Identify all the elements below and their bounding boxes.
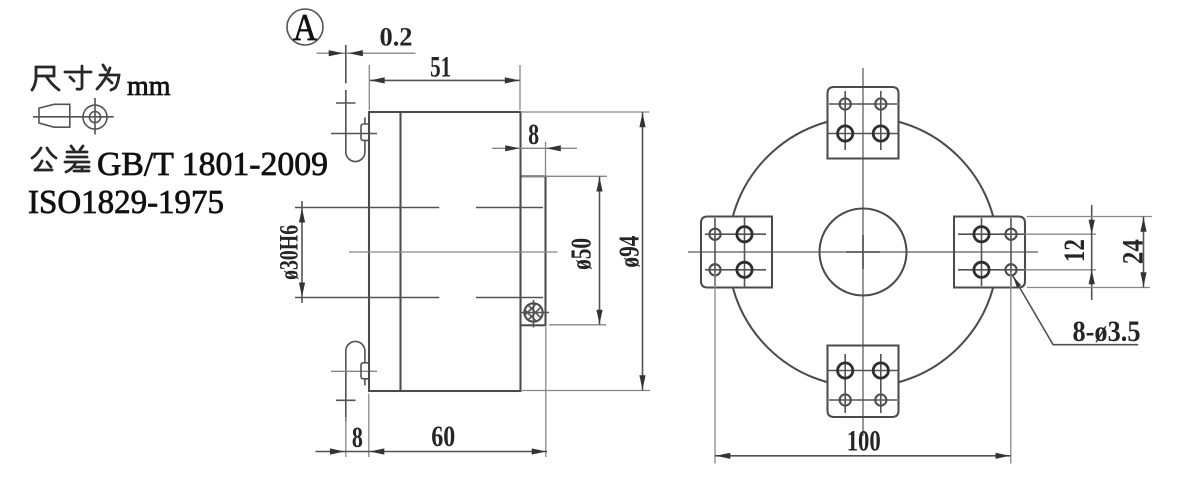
right view: right tab small holes (ø3.5) <box>1005 229 1016 276</box>
right view: body circle arc top-left <box>733 122 828 217</box>
svg-text:8: 8 <box>528 118 539 151</box>
left view: top stud center line <box>331 133 377 135</box>
svg-text:mm: mm <box>127 71 171 102</box>
right view: right tab hole axis lines <box>958 218 1096 286</box>
left view: bottom hook axis line <box>345 358 347 422</box>
right view: bottom tab big holes <box>838 363 889 378</box>
note: dimensions in mm (Chinese 尺寸为 + mm) <box>32 65 171 102</box>
datum label A circle <box>287 7 323 49</box>
dimension ø50 lines <box>522 176 607 324</box>
right view: body circle arc bottom-left <box>733 288 828 383</box>
dimension 8 (plate) line <box>492 142 577 175</box>
right view: left tab hole axis lines <box>705 217 766 288</box>
projection symbol cone (frustum side view) <box>39 104 70 127</box>
right view: body circle arc bottom-right <box>899 288 994 383</box>
projection symbol center line <box>33 116 114 118</box>
svg-text:A: A <box>293 7 317 49</box>
left view: flange line <box>399 112 401 391</box>
dimension 100 lines <box>715 272 1011 464</box>
svg-text:12: 12 <box>1058 239 1091 262</box>
right view: right mounting tab outline <box>954 217 1025 288</box>
right view: bottom mounting tab outline <box>828 346 899 418</box>
right view: left tab small holes (ø3.5) <box>709 229 720 276</box>
right view: center mark cross <box>846 235 880 269</box>
dimension ø94 lines <box>521 112 651 391</box>
dimension 12 line <box>1089 205 1095 300</box>
right view: top tab big holes <box>838 126 889 141</box>
dimension ø30H6 line <box>299 201 305 303</box>
dimension 51 line <box>369 65 520 110</box>
svg-text:8-ø3.5: 8-ø3.5 <box>1073 315 1141 348</box>
left view: bore line top <box>295 207 543 209</box>
left view: motor body rectangle <box>369 112 521 391</box>
svg-text:ø30H6: ø30H6 <box>275 225 304 280</box>
right view: top tab small holes (ø3.5) <box>840 98 887 109</box>
note: tolerance 公差 GB/T 1801-2009 <box>32 146 328 183</box>
left view: top stud <box>361 124 368 140</box>
svg-text:GB/T 1801-2009: GB/T 1801-2009 <box>97 146 328 183</box>
left view: mounting plate (8mm) rectangle <box>521 176 546 325</box>
right view: left tab big holes <box>737 227 752 278</box>
left view: top hook axis line <box>345 45 347 147</box>
svg-text:ø50: ø50 <box>566 238 598 270</box>
svg-text:60: 60 <box>431 420 455 453</box>
right view: vertical center line <box>862 68 864 436</box>
left view: bottom hook U-curve <box>346 341 365 385</box>
left view: axis center line <box>349 251 558 253</box>
right view: left mounting tab outline <box>701 217 772 288</box>
left view: top hook cross tick <box>336 102 356 104</box>
svg-text:ø94: ø94 <box>614 236 646 268</box>
left view: screw (hatched) <box>518 296 549 333</box>
bottom dimensions 8 and 60 lines <box>316 327 548 457</box>
svg-text:100: 100 <box>847 425 881 458</box>
svg-text:ISO1829-1975: ISO1829-1975 <box>28 184 224 221</box>
dimension 24 lines <box>1027 217 1152 288</box>
right view: top tab hole axis lines <box>828 91 899 150</box>
right view: bottom tab hole axis lines <box>828 354 899 413</box>
left view: bottom stud <box>361 363 368 379</box>
left view: bore line bottom <box>295 297 543 299</box>
svg-text:51: 51 <box>430 51 451 84</box>
right view: top mounting tab outline <box>828 87 899 159</box>
right view: shaft bore circle <box>820 209 907 296</box>
runout dimension 0.2 line <box>317 50 416 56</box>
left view: top hook U-curve <box>346 118 365 162</box>
svg-text:24: 24 <box>1117 239 1150 264</box>
svg-text:0.2: 0.2 <box>380 23 413 52</box>
right view: body circle arc top-right <box>899 122 994 217</box>
left view: bottom hook cross tick <box>336 399 356 401</box>
projection symbol target circles <box>83 98 107 135</box>
right view: horizontal center line <box>688 251 1038 253</box>
left view: bottom stud center line <box>331 370 377 372</box>
right view: bottom tab small holes (ø3.5) <box>840 394 887 405</box>
leader 8-ø3.5 <box>1012 275 1138 345</box>
svg-text:8: 8 <box>352 421 363 454</box>
right view: right tab big holes <box>974 227 989 278</box>
